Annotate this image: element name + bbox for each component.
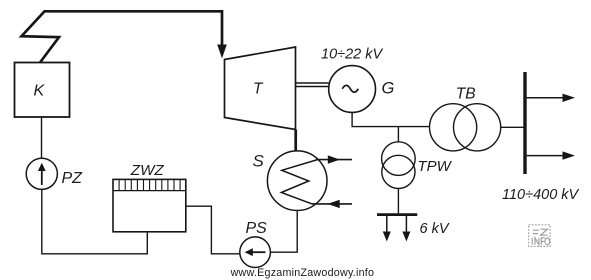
busbar 110-400 kV [523, 72, 526, 174]
svg-text:PZ: PZ [62, 170, 84, 187]
wire turbine exhaust to condenser (thick) [294, 130, 297, 152]
cooling water out arrow (top right of condenser) [316, 159, 352, 161]
transformer TB [430, 104, 477, 151]
svg-text:ZWZ: ZWZ [130, 162, 165, 179]
boiler K [15, 63, 70, 118]
generator G [329, 66, 376, 113]
svg-text:PS: PS [246, 220, 268, 237]
wire K bottom to PZ [41, 117, 43, 158]
condenser S [267, 151, 327, 211]
wire generator to TB with junction to TPW [352, 112, 429, 126]
svg-text:G: G [382, 80, 395, 98]
turbine T [225, 47, 296, 130]
arrowhead into turbine [217, 45, 227, 59]
6kV feeder arrow left [386, 216, 388, 234]
feeder arrow upper [527, 97, 564, 99]
wire TPW down to 6kV bar [397, 189, 399, 214]
feedwater heater ZWZ [113, 179, 186, 231]
pump PS [240, 237, 271, 268]
svg-text:www.EgzaminZawodowy.info: www.EgzaminZawodowy.info [230, 267, 375, 279]
EZ INFO stamp [529, 225, 550, 247]
wire junction down to TPW [397, 127, 399, 142]
svg-text:6 kV: 6 kV [420, 221, 450, 237]
svg-text:S: S [253, 151, 265, 170]
transformer TPW [382, 142, 416, 176]
wire PZ bottom, bottom run to ZWZ [42, 189, 148, 253]
svg-text:TPW: TPW [418, 158, 453, 175]
pump PZ [26, 158, 57, 189]
6 kV bar [377, 213, 417, 216]
cooling water in arrow (bottom right of condenser) [312, 203, 352, 205]
shaft turbine to generator (double line) [296, 82, 329, 84]
svg-text:110÷400 kV: 110÷400 kV [502, 187, 580, 203]
svg-text:10÷22 kV: 10÷22 kV [321, 47, 383, 63]
6kV feeder arrow right [405, 216, 407, 234]
svg-text:K: K [34, 83, 46, 100]
wire TB to busbar [501, 126, 524, 128]
feeder arrow lower [527, 155, 564, 157]
svg-text:T: T [253, 80, 264, 97]
wire steam pipe from boiler to turbine (thick zigzag + top run) [22, 11, 223, 62]
wire PS right to condenser bottom [270, 211, 297, 252]
wire ZWZ right to PS [186, 206, 240, 254]
svg-text:TB: TB [456, 86, 476, 103]
